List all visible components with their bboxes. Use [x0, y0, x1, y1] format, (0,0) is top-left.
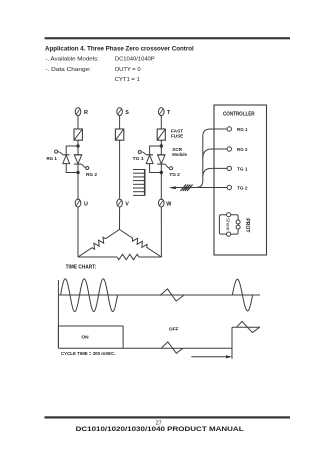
- wire TG2 to controller (bundle line): [175, 141, 228, 188]
- wire TG1 to controller: [203, 168, 227, 176]
- SCR module 1 loop wires: [66, 146, 78, 173]
- title text: [45, 46, 194, 52]
- wire U to delta: [77, 207, 79, 257]
- terminal T: [159, 108, 172, 116]
- resistor load bottom (delta): [78, 254, 161, 259]
- shunt top terminal: [227, 213, 231, 217]
- terminal W: [159, 199, 173, 207]
- available models line: [45, 56, 155, 62]
- svg-text:T: T: [167, 110, 171, 116]
- svg-text:Application 4. Three Phase Zer: Application 4. Three Phase Zero crossove…: [45, 46, 194, 52]
- gate terminal TG2: [165, 164, 180, 178]
- terminal U: [75, 199, 88, 207]
- thyristor SCR2a (left, conducts up): [146, 155, 153, 164]
- cable arrow to gates: [169, 185, 193, 192]
- svg-text:U: U: [84, 201, 88, 207]
- footer title: [76, 426, 244, 433]
- heatsink: [133, 169, 145, 196]
- svg-text:CYCLE TIME = 200 mSEC.: CYCLE TIME = 200 mSEC.: [61, 351, 116, 356]
- svg-text:RG 2: RG 2: [86, 172, 97, 178]
- svg-text:-. Available Models:: -. Available Models:: [45, 56, 99, 62]
- thyristor SCR2b (right, conducts down): [157, 155, 165, 164]
- shunt bottom terminal: [227, 232, 231, 236]
- data change line: [45, 67, 140, 73]
- wire R to fuse F1: [77, 115, 79, 129]
- svg-text:FUSE: FUSE: [171, 134, 184, 140]
- controller terminal RG2: [227, 147, 248, 153]
- svg-text:DC1010/1020/1030/1040 PRODUCT: DC1010/1020/1030/1040 PRODUCT MANUAL: [76, 426, 244, 433]
- controller box U1: [214, 105, 267, 255]
- rising edge: [231, 327, 233, 359]
- controller terminal RG1: [227, 127, 248, 133]
- output high line (right): [232, 326, 260, 328]
- label CYCLE TIME: [61, 351, 116, 356]
- terminal R: [75, 108, 88, 116]
- controller terminal TG2: [227, 185, 248, 191]
- svg-text:Shunt: Shunt: [224, 218, 230, 231]
- sine burst (right): [232, 279, 252, 311]
- ON pulse: [58, 326, 123, 348]
- top rule: [45, 37, 290, 39]
- terminal S: [117, 108, 130, 116]
- wire fuse F2 to V: [119, 140, 121, 199]
- label OFF: [169, 326, 179, 332]
- gate terminal RG2: [82, 164, 98, 178]
- svg-text:SCR: SCR: [172, 147, 182, 153]
- svg-text:S: S: [125, 110, 129, 116]
- svg-text:TG 2: TG 2: [237, 185, 248, 191]
- thyristor SCR1b (right, conducts down): [74, 155, 82, 164]
- svg-text:ON: ON: [81, 334, 89, 340]
- svg-text:-. Data Change:: -. Data Change:: [45, 67, 91, 73]
- chart vertical axis: [57, 280, 59, 348]
- resistor load left (delta): [78, 230, 120, 258]
- resistor load right (delta): [120, 230, 162, 258]
- label SCR Module: [172, 147, 187, 158]
- node (SCR1 bottom junction): [76, 171, 79, 174]
- wire RG1 to controller: [203, 129, 227, 141]
- controller terminal TG1: [227, 166, 248, 172]
- wire RG2 to controller: [203, 149, 227, 158]
- svg-text:RG 1: RG 1: [47, 156, 58, 162]
- svg-text:TG 1: TG 1: [133, 156, 144, 162]
- fuse F2 (phase S): [115, 129, 123, 140]
- label TIME CHART: [66, 265, 97, 271]
- output low line: [58, 347, 232, 349]
- svg-text:RG 1: RG 1: [237, 127, 248, 133]
- phase voltage baseline: [58, 294, 260, 296]
- svg-text:TG 1: TG 1: [237, 166, 248, 172]
- wire fuse F1 to node: [77, 140, 79, 146]
- wire T to fuse F3: [160, 115, 162, 129]
- svg-text:OUTY = 0: OUTY = 0: [115, 67, 141, 73]
- svg-text:V: V: [125, 201, 129, 207]
- wire SCR2 to W: [160, 173, 162, 201]
- thyristor SCR1a (left, conducts up): [63, 155, 70, 164]
- svg-text:W: W: [166, 201, 172, 207]
- node (SCR1 top junction): [76, 144, 79, 147]
- svg-text:TG 2: TG 2: [169, 172, 180, 178]
- node (SCR2 bottom junction): [160, 171, 163, 174]
- svg-text:CYT1 = 1: CYT1 = 1: [115, 77, 140, 83]
- fuse F1 (phase R): [74, 129, 82, 140]
- svg-text:OFF: OFF: [169, 326, 179, 332]
- svg-text:CONTROLLER: CONTROLLER: [223, 112, 255, 118]
- svg-text:FAST: FAST: [171, 129, 183, 135]
- svg-text:TIME CHART:: TIME CHART:: [66, 265, 97, 271]
- shunt block: [219, 215, 238, 234]
- break symbol on high line: [237, 321, 260, 332]
- break symbol on low line: [161, 342, 183, 353]
- SCR module 2 loop wires: [150, 146, 162, 173]
- svg-text:Module: Module: [172, 152, 187, 158]
- wire fuse F3 to node: [160, 140, 162, 146]
- node (SCR2 top junction): [160, 144, 163, 147]
- wire W to delta: [160, 207, 162, 257]
- PROT terminals: [236, 218, 250, 233]
- svg-text:RG 2: RG 2: [237, 147, 248, 153]
- gate terminal TG1: [133, 151, 147, 163]
- wire SCR1 to U: [77, 173, 79, 201]
- wire V to delta apex: [119, 207, 121, 229]
- label FAST FUSE: [171, 129, 184, 140]
- fuse F3 (FAST FUSE, phase T): [157, 129, 165, 140]
- gate terminal RG1: [47, 150, 63, 162]
- CYT1 line: [115, 77, 140, 83]
- svg-text:R: R: [84, 110, 88, 116]
- page number: [156, 421, 162, 427]
- sine waveform (3 cycles): [61, 279, 118, 312]
- svg-text:DC1040/1040P: DC1040/1040P: [115, 56, 155, 62]
- wire S to fuse F2: [119, 115, 121, 129]
- cycle time arrow: [191, 355, 232, 358]
- terminal V: [117, 199, 130, 207]
- bottom rule: [45, 416, 291, 418]
- break symbol on baseline: [160, 289, 184, 301]
- svg-text:PROT: PROT: [244, 218, 250, 233]
